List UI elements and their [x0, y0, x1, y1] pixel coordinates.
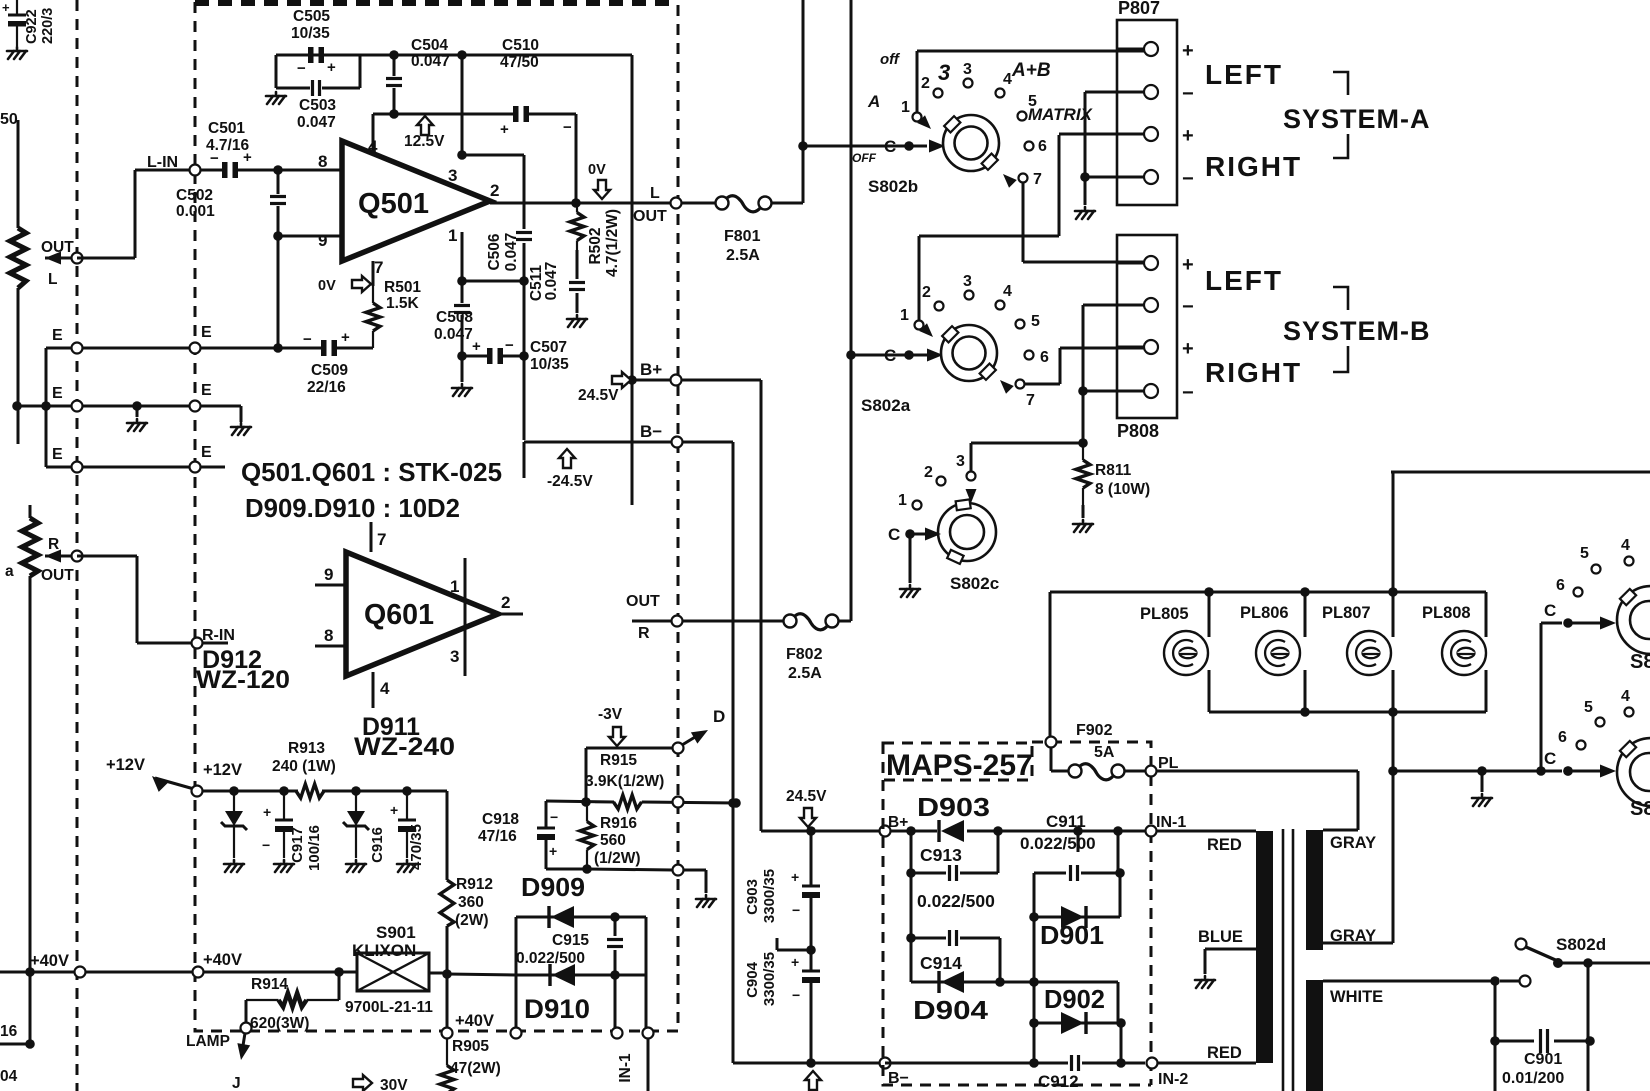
svg-text:5: 5 [1584, 699, 1593, 716]
svg-text:E: E [52, 327, 63, 344]
wire [803, 145, 927, 148]
svg-text:E: E [201, 382, 212, 399]
wire [77, 257, 135, 260]
wire [1125, 770, 1145, 773]
wire [523, 281, 526, 356]
wire [1034, 872, 1066, 875]
terminal +L [1144, 42, 1158, 56]
capacitor C505 [308, 47, 314, 63]
svg-text:+: + [263, 804, 271, 820]
svg-text:3300/35: 3300/35 [761, 869, 778, 923]
junction [806, 1058, 816, 1068]
svg-text:LAMP: LAMP [186, 1033, 230, 1050]
svg-text:2.5A: 2.5A [788, 665, 822, 682]
junction [273, 231, 283, 241]
junction [457, 276, 467, 286]
svg-text:PL808: PL808 [1422, 604, 1471, 622]
fuse F802 [784, 615, 797, 628]
junction [806, 826, 816, 836]
wire [1117, 831, 1120, 873]
svg-text:PL807: PL807 [1322, 604, 1371, 622]
svg-text:OFF: OFF [852, 151, 877, 165]
wire [462, 355, 488, 358]
wire [240, 406, 243, 422]
svg-text:9700L-21-11: 9700L-21-11 [345, 999, 433, 1016]
wire [0, 1043, 30, 1046]
svg-text:2.5A: 2.5A [726, 247, 760, 264]
wire [523, 243, 526, 281]
junction [995, 977, 1005, 987]
wire B+ feed [631, 55, 634, 505]
bracket SYSTEM-B [1333, 287, 1348, 372]
wire [960, 937, 1000, 940]
junction [806, 945, 816, 955]
dashed module border top edge [195, 0, 678, 6]
resistor R913 [276, 790, 296, 792]
junction [1116, 1058, 1126, 1068]
svg-text:9: 9 [324, 565, 333, 584]
wire [200, 169, 222, 172]
junction [1477, 766, 1487, 776]
svg-text:Q601: Q601 [364, 599, 434, 631]
terminal +R [1144, 340, 1158, 354]
wire [393, 55, 396, 76]
wire [45, 257, 72, 260]
resistor R905 [446, 1038, 448, 1066]
junction [1300, 587, 1310, 597]
svg-text:WHITE: WHITE [1330, 988, 1383, 1006]
svg-text:12.5V: 12.5V [404, 133, 445, 150]
node [612, 1028, 623, 1039]
svg-text:S802c: S802c [950, 574, 999, 593]
wire [1050, 747, 1053, 771]
junction [1078, 386, 1088, 396]
wire socket [1208, 592, 1211, 637]
svg-text:C912: C912 [1038, 1072, 1079, 1091]
wire [338, 972, 341, 1000]
junction [389, 109, 399, 119]
node E [72, 401, 83, 412]
contact 7 [1016, 380, 1025, 389]
junction [906, 826, 916, 836]
wire [971, 442, 1083, 445]
svg-text:S802a: S802a [861, 396, 911, 415]
svg-text:C: C [884, 137, 896, 156]
svg-text:C: C [1544, 601, 1556, 620]
svg-text:+: + [549, 843, 557, 859]
svg-text:0.047: 0.047 [543, 262, 560, 301]
wire [276, 87, 310, 90]
junction [457, 50, 467, 60]
wire [1117, 48, 1144, 51]
transformer secondary winding (white) [1306, 980, 1323, 1091]
arrow position 7 [996, 376, 1014, 394]
svg-text:−: − [792, 987, 800, 1003]
svg-text:0.047: 0.047 [411, 53, 450, 70]
capacitor C917 [283, 791, 285, 820]
junction [1078, 438, 1088, 448]
wire [647, 1038, 650, 1091]
svg-text:-24.5V: -24.5V [547, 473, 593, 490]
arrow position 1 [917, 115, 935, 133]
contact 3 [967, 472, 976, 481]
wire [1051, 770, 1068, 773]
svg-text:GRAY: GRAY [1330, 834, 1376, 852]
svg-text:J: J [232, 1075, 241, 1091]
node [643, 1028, 654, 1039]
transformer core [1282, 829, 1285, 1091]
arrow +12V [147, 771, 168, 792]
node OUT L [72, 253, 83, 264]
wire GRAY [1323, 829, 1358, 832]
svg-text:C503: C503 [299, 97, 336, 114]
svg-text:4.7(1/2W): 4.7(1/2W) [604, 209, 621, 277]
svg-text:1: 1 [450, 577, 459, 596]
wire pin4 [372, 672, 375, 708]
svg-text:C507: C507 [530, 339, 567, 356]
node [442, 1028, 453, 1039]
arrow D [691, 724, 711, 743]
svg-text:5: 5 [1580, 545, 1589, 562]
wire [1058, 135, 1061, 236]
fuse F902 [1069, 765, 1082, 778]
wire E row 2 [17, 405, 241, 408]
wire [910, 873, 913, 938]
arrow position 3 [966, 489, 977, 503]
capacitor C918 [537, 827, 555, 830]
junction [1536, 766, 1546, 776]
wire [910, 533, 928, 536]
wire [576, 293, 579, 313]
svg-text:IN-1: IN-1 [617, 1053, 634, 1083]
junction [571, 198, 581, 208]
thermal switch S901 KLIXON [357, 953, 429, 991]
wire [137, 642, 192, 645]
svg-text:MAPS-257: MAPS-257 [886, 749, 1033, 782]
svg-text:0.022/500: 0.022/500 [917, 891, 995, 911]
wire [242, 1033, 245, 1052]
svg-text:24.5V: 24.5V [786, 788, 827, 805]
pilot lamp PL808 [1442, 631, 1486, 675]
svg-text:R913: R913 [288, 740, 325, 757]
wire [1085, 176, 1144, 179]
ground [1073, 520, 1093, 532]
arrow rotor S802a [927, 349, 943, 362]
svg-text:+: + [1182, 338, 1194, 360]
contact 7 [1019, 174, 1028, 183]
node D [673, 743, 684, 754]
pivot [1553, 958, 1563, 968]
wire [1117, 982, 1120, 1023]
contact 3 [965, 291, 974, 300]
junction [610, 970, 620, 980]
svg-text:C913: C913 [920, 845, 962, 865]
svg-text:F801: F801 [724, 228, 761, 245]
svg-text:C903: C903 [744, 879, 761, 915]
diode D909 [547, 906, 550, 928]
svg-text:C916: C916 [369, 827, 386, 863]
svg-text:−: − [505, 337, 514, 354]
junction [402, 786, 412, 796]
resistor R811 [1082, 443, 1084, 460]
wire [29, 505, 32, 518]
node OUT L [671, 198, 682, 209]
capacitor C915 [607, 938, 623, 941]
wire [359, 55, 362, 88]
pilot lamp PL807 [1347, 631, 1391, 675]
svg-text:0.01/200: 0.01/200 [1502, 1070, 1564, 1087]
wire PL to GRAY tap [1156, 770, 1358, 773]
svg-text:C901: C901 [1524, 1051, 1562, 1068]
wire pin1 [461, 232, 464, 281]
wire [461, 55, 464, 155]
svg-text:P807: P807 [1118, 0, 1160, 18]
wire bus [1392, 670, 1395, 943]
wire [1049, 592, 1052, 737]
terminal -L [1144, 85, 1158, 99]
wire [546, 868, 587, 871]
capacitor C502 [270, 195, 286, 198]
svg-text:D902: D902 [1044, 984, 1105, 1014]
contact 5 [1018, 112, 1027, 121]
wire pin1-3 [464, 558, 467, 676]
svg-text:E: E [52, 446, 63, 463]
junction [334, 967, 344, 977]
wire D904 row [911, 981, 1118, 984]
wire [17, 288, 20, 444]
svg-text:BLUE: BLUE [1198, 928, 1243, 946]
node OUT R [672, 616, 683, 627]
svg-text:S802b: S802b [868, 177, 918, 196]
junction [1204, 587, 1214, 597]
svg-text:C915: C915 [552, 932, 589, 949]
svg-text:B+: B+ [888, 814, 908, 831]
wire socket [1304, 592, 1307, 637]
svg-text:3: 3 [963, 61, 972, 78]
wire socket [1304, 670, 1307, 712]
svg-text:1: 1 [448, 226, 457, 245]
svg-text:−: − [1182, 382, 1194, 404]
junction [457, 351, 467, 361]
rotary switch S8 lower rotor [1617, 738, 1650, 806]
wire [999, 938, 1002, 982]
svg-text:−: − [297, 60, 306, 77]
svg-text:D903: D903 [917, 792, 990, 822]
wire [29, 576, 32, 1044]
diode D904 [937, 971, 940, 993]
junction [904, 141, 914, 151]
ground [696, 895, 716, 907]
capacitor C922 [16, 0, 18, 15]
junction C [1563, 618, 1573, 628]
ground [346, 860, 366, 872]
junction [1115, 868, 1125, 878]
terminal +L [1144, 256, 1158, 270]
bracket SYSTEM-A [1333, 72, 1348, 158]
ground [127, 419, 147, 431]
svg-text:off: off [880, 51, 901, 68]
svg-text:9: 9 [318, 231, 327, 250]
wire socket [1485, 670, 1488, 712]
wire [1059, 133, 1144, 136]
svg-text:100/16: 100/16 [306, 825, 323, 871]
contact 3 [964, 79, 973, 88]
arrow rotor S8 lower [1600, 765, 1616, 778]
ground [1075, 207, 1095, 219]
wire [916, 51, 919, 113]
wire D909 row [516, 916, 646, 919]
svg-text:620(3W): 620(3W) [250, 1015, 309, 1032]
junction [1080, 172, 1090, 182]
svg-text:0V: 0V [318, 278, 336, 294]
dashed box MAPS-257 outline [883, 742, 1151, 1085]
svg-text:2: 2 [501, 593, 510, 612]
svg-text:2: 2 [490, 181, 499, 200]
node +12V [192, 786, 203, 797]
svg-text:+: + [341, 329, 350, 346]
wire [917, 50, 1144, 53]
diode D903 [937, 820, 940, 842]
node B+ [671, 375, 682, 386]
wire [850, 0, 853, 621]
svg-text:−: − [1182, 168, 1194, 190]
svg-text:(1/2W): (1/2W) [594, 850, 641, 867]
ground [397, 860, 417, 872]
svg-text:C508: C508 [436, 309, 473, 326]
contact 1 [915, 321, 924, 330]
svg-text:+40V: +40V [203, 951, 242, 969]
capacitor C508 [454, 304, 470, 307]
wire D902 row [1034, 1022, 1121, 1025]
svg-text:C922: C922 [24, 9, 40, 44]
wire +40V [0, 971, 339, 974]
svg-text:C: C [888, 525, 900, 544]
junction [25, 1039, 35, 1049]
wire [645, 917, 648, 975]
capacitor C503 [311, 80, 314, 96]
capacitor C507 [487, 348, 493, 364]
wire pin2 [498, 613, 523, 616]
svg-text:3: 3 [450, 647, 459, 666]
contact 6 [1574, 588, 1583, 597]
pilot lamp PL806 [1256, 631, 1300, 675]
contact 6 [1025, 351, 1034, 360]
wire pin9 [278, 235, 342, 238]
contact 2 [934, 89, 943, 98]
svg-text:S901: S901 [376, 923, 416, 942]
svg-text:1: 1 [901, 99, 910, 116]
contact [1516, 939, 1527, 950]
wire [839, 620, 851, 623]
junction [1113, 826, 1123, 836]
svg-text:0V: 0V [588, 162, 606, 178]
contact 1 [913, 501, 922, 510]
ground [567, 315, 587, 327]
wire [1082, 305, 1085, 443]
svg-text:S8: S8 [1630, 651, 1650, 673]
wire [1117, 262, 1144, 265]
wire [960, 872, 998, 875]
svg-text:R916: R916 [600, 815, 637, 832]
wire [681, 202, 715, 205]
svg-text:47/50: 47/50 [500, 54, 539, 71]
svg-text:C914: C914 [920, 953, 962, 973]
svg-text:IN-1: IN-1 [1156, 814, 1186, 831]
wire [523, 442, 526, 478]
wire [585, 748, 588, 802]
svg-text:PL805: PL805 [1140, 605, 1189, 623]
svg-text:4: 4 [368, 137, 378, 156]
arrow into speaker L [45, 252, 61, 265]
wire [393, 88, 396, 114]
junction [906, 933, 916, 943]
wire [245, 1000, 248, 1023]
voltage arrow -24.5V [805, 1071, 821, 1090]
wire [1084, 92, 1087, 177]
capacitor C509 [321, 340, 327, 356]
wire [515, 975, 518, 1028]
node [1046, 737, 1057, 748]
wire [910, 831, 913, 873]
node [673, 797, 684, 808]
svg-text:2: 2 [921, 75, 930, 92]
svg-text:8 (10W): 8 (10W) [1095, 481, 1150, 498]
contact 6 [1577, 741, 1586, 750]
svg-text:4: 4 [1621, 688, 1630, 705]
contact 1 [913, 113, 922, 122]
contact 4 [996, 89, 1005, 98]
svg-text:22/16: 22/16 [307, 379, 346, 396]
svg-text:50: 50 [0, 111, 18, 128]
wire [1082, 505, 1085, 518]
svg-text:0.047: 0.047 [297, 114, 336, 131]
wire [1495, 1040, 1534, 1043]
arrow rotor S802c [925, 528, 941, 541]
junction C [1563, 766, 1573, 776]
wire [1568, 770, 1602, 773]
capacitor C510 [513, 106, 519, 122]
wire [523, 356, 526, 440]
junction [1585, 1036, 1595, 1046]
junction [731, 798, 741, 808]
svg-text:R502: R502 [587, 227, 604, 264]
arrow position 1 [919, 323, 937, 341]
svg-text:+: + [327, 59, 336, 76]
wire PL distribution [1393, 770, 1562, 773]
wire [277, 206, 280, 348]
junction [457, 150, 467, 160]
wire [1083, 390, 1144, 393]
wire [1117, 346, 1144, 349]
svg-text:PL: PL [1158, 755, 1179, 772]
resistor (speaker load R) [22, 518, 38, 576]
svg-text:+: + [1182, 254, 1194, 276]
svg-text:C504: C504 [411, 37, 448, 54]
wire [134, 170, 137, 258]
svg-text:0.001: 0.001 [176, 203, 215, 220]
wire pin4 [372, 114, 375, 152]
svg-text:L: L [48, 271, 57, 288]
wire [614, 975, 617, 1028]
transformer secondary winding (gray) [1306, 830, 1323, 950]
junction [12, 401, 22, 411]
capacitor C511 [569, 281, 585, 284]
svg-text:R912: R912 [456, 876, 493, 893]
svg-text:3: 3 [448, 166, 457, 185]
svg-text:L-IN: L-IN [147, 154, 178, 171]
wire stub [776, 938, 779, 950]
ground [274, 860, 294, 872]
